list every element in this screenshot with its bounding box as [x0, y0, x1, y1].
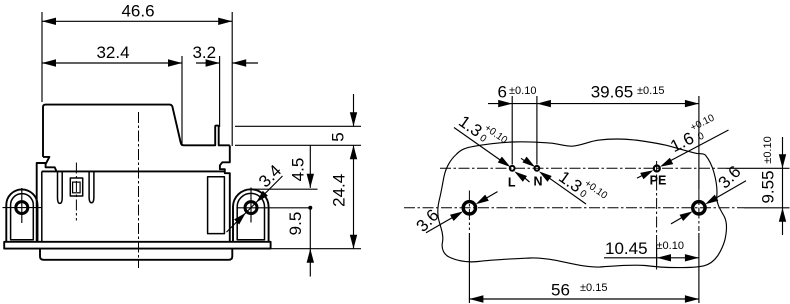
- svg-text:3.2: 3.2: [192, 43, 216, 62]
- label 3.6 left arrow: [450, 211, 463, 221]
- dimension 10.45 line: [604, 257, 699, 259]
- right ear hole centerline vertical: [250, 188, 252, 223]
- label 1.3 L opposing arrow: [514, 171, 527, 181]
- dimension 9.5 line: [309, 208, 311, 277]
- ear top extension line: [252, 188, 318, 190]
- label 1.6 PE opposing tail: [637, 175, 643, 178]
- right mounting hole vertical centerline: [698, 189, 700, 231]
- dimension 39.65 line: [537, 103, 699, 105]
- hole centerline extension to dot: [237, 207, 310, 209]
- label 1.3 N tail with text: [549, 178, 586, 204]
- right collar latch staircase: [220, 145, 230, 241]
- svg-text:±0.15: ±0.15: [637, 85, 664, 97]
- dimension 56 line: [469, 298, 699, 300]
- label 1.3 N leader: [521, 158, 525, 161]
- dimension 6 line: [488, 103, 537, 105]
- hole N extension line: [536, 96, 538, 165]
- svg-text:±0.10: ±0.10: [762, 136, 774, 163]
- label 1.3 N text: [555, 164, 609, 212]
- label 3.6 right lower arrow: [680, 211, 693, 221]
- svg-text:56: 56: [551, 281, 570, 300]
- label 1.6 PE text: [666, 112, 723, 156]
- fuse drawer rectangle: [208, 177, 225, 234]
- PE extension solid segment: [656, 245, 658, 266]
- right mounting hole extension upper: [698, 96, 700, 189]
- right mounting hole extension lower: [698, 233, 700, 303]
- svg-text:6: 6: [498, 82, 507, 101]
- dimension 46.6 line: [42, 20, 232, 22]
- left ear hole centerline horizontal: [3, 207, 42, 209]
- body surface extension line: [235, 144, 361, 146]
- dimension 3.4 upper arrow: [256, 191, 268, 203]
- dimension 5 tail: [353, 94, 355, 126]
- svg-text:PE: PE: [650, 174, 667, 188]
- dimension 9.5 dot: [308, 206, 312, 210]
- label 3.6 right lower tail: [671, 217, 682, 224]
- dimension 9.55 extension upper: [726, 167, 790, 169]
- label 1.6 PE opposing arrow: [640, 170, 653, 179]
- pin 1: [58, 171, 63, 203]
- left mounting hole extension to 56: [468, 233, 470, 303]
- dimension 24.4 line: [353, 145, 355, 248]
- label 1.6 PE arrow: [660, 158, 673, 167]
- dimension 10.45 arrows: [657, 254, 671, 261]
- svg-text:±0.10: ±0.10: [509, 85, 536, 97]
- left ear inner arch: [11, 194, 34, 240]
- dimension 5 arrow: [350, 112, 357, 126]
- left collar inner step: [46, 163, 57, 171]
- label 3.6 right upper tail: [716, 181, 746, 199]
- svg-text:39.65: 39.65: [591, 82, 634, 101]
- body top outline: [43, 105, 230, 157]
- fuse centerline: [75, 163, 77, 221]
- svg-text:24.4: 24.4: [330, 174, 349, 207]
- dimension 46.6 arrows: [42, 18, 56, 25]
- dimension 32.4 arrows: [42, 59, 56, 66]
- dimension 6 arrows: [498, 100, 512, 107]
- dimension 9.5 arrow: [307, 249, 314, 263]
- latch top extension line: [235, 125, 361, 127]
- svg-text:4.5: 4.5: [289, 158, 308, 182]
- svg-text:46.6: 46.6: [121, 2, 154, 21]
- svg-text:9.5: 9.5: [286, 212, 305, 236]
- mounting holes centerline: [404, 207, 744, 209]
- pin 2: [89, 171, 94, 202]
- label 1.6 PE leader: [668, 130, 729, 162]
- fuse holder box: [70, 178, 82, 196]
- label 3.6 left upper arrow: [476, 195, 489, 205]
- dimension 3.2 arrows: [206, 59, 220, 66]
- svg-text:N: N: [533, 175, 542, 189]
- label 1.3 N arrow: [522, 157, 535, 167]
- PE vertical centerline: [656, 161, 658, 270]
- dimension 3.2 lines: [196, 62, 258, 64]
- flange bottom extension line: [272, 248, 362, 250]
- hole L extension line: [511, 96, 513, 165]
- inner body wall left: [41, 171, 43, 241]
- mounting hole left: [463, 202, 475, 214]
- hole PE: [654, 166, 660, 172]
- right ear inner arch: [237, 193, 264, 239]
- right ear outer arch: [233, 189, 269, 242]
- svg-text:9.55: 9.55: [759, 170, 778, 203]
- svg-text:±0.10: ±0.10: [657, 240, 684, 252]
- svg-text:5: 5: [329, 132, 348, 141]
- mounting flange: [4, 242, 270, 249]
- main centerline: [138, 112, 140, 268]
- left ear hole: [16, 202, 28, 214]
- svg-text:±0.15: ±0.15: [580, 282, 607, 294]
- dimension 3.4 leader line: [227, 176, 283, 232]
- dimension 56 arrows: [469, 295, 483, 302]
- left ear hole centerline vertical: [21, 188, 23, 223]
- label 1.3 L arrow: [498, 157, 511, 167]
- dimension 3.4 lower arrow: [234, 213, 246, 225]
- label 1.3 L opposing tail: [524, 178, 529, 183]
- dimension 9.55 arrows: [779, 154, 786, 168]
- left collar latch: [37, 157, 50, 242]
- dimension 9.55 extension lower: [744, 207, 790, 209]
- dimension 46.6 extension left: [41, 12, 43, 102]
- left ear outer arch: [6, 189, 37, 241]
- bottom protrusion: [40, 249, 232, 260]
- panel plate wavy outline: [438, 139, 727, 268]
- dimension 4.5 arrow: [307, 174, 314, 188]
- svg-text:10.45: 10.45: [605, 239, 648, 258]
- label 3.6 right upper arrow: [705, 195, 718, 205]
- left mounting hole vertical centerline: [468, 191, 470, 231]
- dimension 39.65 right arrow: [685, 100, 699, 107]
- dimension 3.2 extension left: [219, 56, 221, 127]
- dimension 4.5 line: [309, 145, 311, 188]
- dimension 24.4 arrows: [350, 145, 357, 159]
- dimension 9.55 line: [782, 137, 784, 235]
- label 1.3 L text: [455, 108, 509, 156]
- fuse holder inner: [73, 182, 81, 193]
- svg-text:L: L: [508, 176, 516, 190]
- hole N: [535, 166, 540, 171]
- lower body top line: [42, 170, 225, 172]
- right ear hole: [245, 202, 257, 214]
- svg-text:32.4: 32.4: [96, 43, 129, 62]
- dimension 46.6 extension right: [231, 12, 233, 146]
- mounting hole right: [693, 202, 705, 214]
- label 3.6 left leader: [426, 217, 453, 232]
- dimension 32.4 extension right: [181, 56, 183, 146]
- label 1.3 N opposing arrow: [539, 171, 552, 181]
- label 3.6 left upper tail: [486, 192, 497, 199]
- dimension 32.4 line: [42, 62, 182, 64]
- label 1.3 L leader: [454, 128, 501, 161]
- small holes centerline: [440, 167, 726, 169]
- hole L: [510, 166, 515, 171]
